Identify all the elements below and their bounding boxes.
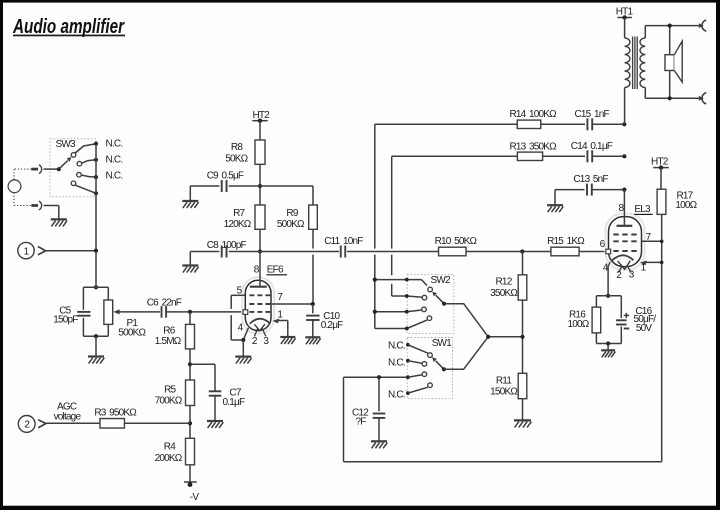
svg-text:R15 1KΩ: R15 1KΩ xyxy=(547,236,585,247)
svg-text:500KΩ: 500KΩ xyxy=(118,328,146,339)
svg-text:C8 100pF: C8 100pF xyxy=(207,240,247,251)
svg-text:Audio amplifier: Audio amplifier xyxy=(12,15,125,38)
svg-text:SW1: SW1 xyxy=(432,338,453,349)
svg-text:R11: R11 xyxy=(496,375,512,386)
svg-text:R5: R5 xyxy=(164,384,176,395)
svg-text:R9: R9 xyxy=(286,208,298,219)
svg-text:N.C.: N.C. xyxy=(388,358,405,369)
svg-text:C13 5nF: C13 5nF xyxy=(573,174,608,185)
svg-text:voltage: voltage xyxy=(54,412,82,423)
svg-text:R3 950KΩ: R3 950KΩ xyxy=(94,407,137,418)
svg-text:500KΩ: 500KΩ xyxy=(277,219,305,230)
svg-text:R12: R12 xyxy=(496,276,513,287)
svg-text:EF6: EF6 xyxy=(267,265,284,276)
svg-text:R13 350KΩ: R13 350KΩ xyxy=(510,141,558,152)
svg-text:R10 50KΩ: R10 50KΩ xyxy=(435,236,478,247)
svg-text:N.C.: N.C. xyxy=(106,171,123,182)
svg-text:C14 0.1μF: C14 0.1μF xyxy=(571,141,613,152)
svg-text:SW3: SW3 xyxy=(56,139,77,150)
svg-text:SW2: SW2 xyxy=(431,275,452,286)
svg-text:N.C.: N.C. xyxy=(106,155,123,166)
svg-text:700KΩ: 700KΩ xyxy=(155,396,183,407)
svg-text:R7: R7 xyxy=(233,208,245,219)
svg-text:1.5MΩ: 1.5MΩ xyxy=(155,336,182,347)
svg-text:?F: ?F xyxy=(355,417,366,428)
svg-text:N.C.: N.C. xyxy=(388,389,405,400)
svg-text:R6: R6 xyxy=(163,325,175,336)
svg-text:C15 1nF: C15 1nF xyxy=(575,109,610,120)
svg-text:-V: -V xyxy=(190,492,200,503)
svg-text:120KΩ: 120KΩ xyxy=(224,219,252,230)
svg-text:R8: R8 xyxy=(231,142,243,153)
svg-text:0.1μF: 0.1μF xyxy=(223,397,245,408)
svg-text:C6 22nF: C6 22nF xyxy=(147,297,182,308)
svg-text:100Ω: 100Ω xyxy=(675,200,697,211)
svg-text:50KΩ: 50KΩ xyxy=(225,153,248,164)
svg-text:0.2μF: 0.2μF xyxy=(321,320,343,331)
svg-text:150KΩ: 150KΩ xyxy=(490,387,518,398)
svg-text:EL3: EL3 xyxy=(634,204,651,215)
svg-text:R14 100KΩ: R14 100KΩ xyxy=(510,109,558,120)
svg-text:350KΩ: 350KΩ xyxy=(490,288,518,299)
svg-text:N.C.: N.C. xyxy=(388,340,405,351)
svg-text:50V: 50V xyxy=(636,323,653,334)
svg-text:100Ω: 100Ω xyxy=(568,319,590,330)
svg-text:150pF: 150pF xyxy=(53,315,78,326)
svg-text:N.C.: N.C. xyxy=(106,139,123,150)
svg-text:C9 0.5μF: C9 0.5μF xyxy=(207,170,244,181)
svg-text:R4: R4 xyxy=(164,442,176,453)
svg-text:C11 10nF: C11 10nF xyxy=(324,236,363,247)
svg-text:200KΩ: 200KΩ xyxy=(155,453,183,464)
